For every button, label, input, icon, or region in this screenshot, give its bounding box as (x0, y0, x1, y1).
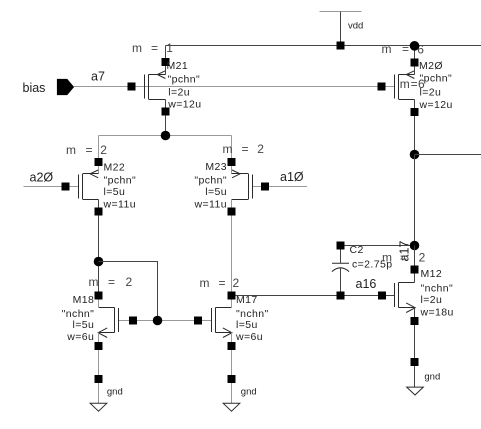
wire tail right drop (231, 136, 233, 174)
svg-text:"nchn": "nchn" (62, 308, 95, 320)
svg-text:M18: M18 (73, 294, 95, 306)
svg-text:M12: M12 (421, 268, 443, 280)
junction dot gate mirror (153, 316, 163, 326)
transistor M21 (128, 41, 202, 136)
wire output column (414, 155, 416, 246)
svg-text:=: = (108, 275, 115, 289)
wire vdd rail (top) (166, 45, 481, 47)
junction dot vdd rail / M20 drain (410, 41, 420, 51)
pin bias (23, 79, 75, 95)
svg-text:gnd: gnd (107, 387, 123, 398)
svg-text:w=18u: w=18u (420, 306, 454, 318)
svg-text:l=2u: l=2u (421, 294, 443, 306)
svg-text:a2Ø: a2Ø (30, 171, 54, 185)
svg-text:m: m (89, 275, 99, 289)
junction dot tail (161, 131, 171, 141)
svg-text:m: m (382, 251, 392, 265)
svg-text:M2Ø: M2Ø (419, 60, 443, 72)
svg-text:"nchn": "nchn" (236, 308, 269, 320)
wire mirror link (99, 262, 158, 321)
svg-text:m: m (200, 276, 210, 290)
svg-text:l=5u: l=5u (205, 186, 227, 198)
junction dot mirror node (94, 257, 104, 267)
capacitor C2 (332, 242, 393, 300)
wire tail left drop (98, 136, 100, 174)
wire gate mirror (119, 320, 212, 322)
svg-text:=: = (411, 77, 418, 91)
vdd tap square on rail (337, 42, 345, 50)
svg-text:=: = (242, 142, 249, 156)
transistor M12 (378, 246, 454, 388)
svg-text:m: m (132, 41, 142, 55)
svg-text:2: 2 (257, 142, 264, 156)
svg-text:=: = (219, 276, 226, 290)
svg-text:l=5u: l=5u (104, 186, 126, 198)
transistor M23 (194, 142, 269, 296)
wire C2 top to output column (341, 245, 415, 247)
svg-text:gnd: gnd (424, 371, 440, 382)
svg-text:2: 2 (126, 275, 133, 289)
svg-text:l=2u: l=2u (168, 87, 190, 99)
transistor M18 (62, 275, 137, 404)
wire first stage out (a16 net) (232, 295, 395, 297)
vdd supply symbol (320, 12, 364, 46)
svg-text:w=6u: w=6u (66, 331, 94, 343)
svg-text:=: = (400, 251, 407, 265)
svg-text:l=5u: l=5u (73, 319, 95, 331)
svg-text:M17: M17 (236, 294, 258, 306)
wire output to right edge (415, 154, 481, 156)
svg-text:vdd: vdd (348, 21, 363, 32)
junction dot M12 drain node (410, 241, 420, 251)
svg-text:2: 2 (233, 276, 240, 290)
svg-text:M21: M21 (167, 60, 189, 72)
svg-text:m: m (223, 142, 233, 156)
svg-text:w=11u: w=11u (103, 199, 136, 211)
wire tail rail (99, 135, 232, 137)
svg-text:l=5u: l=5u (236, 319, 258, 331)
transistor M22 (62, 143, 137, 296)
junction dot output mid (410, 150, 420, 160)
svg-text:"pchn": "pchn" (194, 175, 227, 187)
svg-text:2: 2 (100, 143, 107, 157)
transistor M20 (378, 42, 453, 155)
svg-text:a1Ø: a1Ø (280, 170, 304, 184)
svg-text:l=2u: l=2u (420, 86, 442, 98)
svg-text:C2: C2 (350, 244, 364, 256)
svg-text:a16: a16 (356, 277, 377, 291)
svg-text:2: 2 (419, 251, 426, 265)
transistor M17 (194, 276, 269, 404)
svg-text:=: = (151, 41, 158, 55)
svg-text:a7: a7 (91, 70, 105, 84)
wire a10 (253, 186, 308, 188)
svg-text:m: m (66, 143, 76, 157)
svg-text:"pchn": "pchn" (104, 174, 137, 186)
ground M18 (90, 387, 123, 412)
svg-text:M23: M23 (205, 161, 227, 173)
svg-text:"pchn": "pchn" (168, 73, 201, 85)
svg-text:m: m (382, 42, 392, 56)
svg-text:gnd: gnd (241, 387, 257, 398)
svg-text:1: 1 (166, 41, 173, 55)
svg-text:w=6u: w=6u (235, 331, 263, 343)
svg-text:"nchn": "nchn" (421, 283, 454, 295)
svg-text:M22: M22 (104, 162, 126, 174)
svg-text:m: m (400, 77, 410, 91)
ground M17 (223, 387, 256, 412)
wire bias net a7 (74, 86, 394, 88)
svg-text:w=11u: w=11u (194, 199, 227, 211)
ground M12 (407, 371, 441, 395)
svg-text:w=12u: w=12u (419, 99, 453, 111)
svg-text:=: = (402, 42, 409, 56)
wire a20 (24, 186, 79, 188)
svg-text:bias: bias (23, 81, 46, 95)
svg-text:=: = (86, 143, 93, 157)
svg-text:w=12u: w=12u (167, 98, 201, 110)
